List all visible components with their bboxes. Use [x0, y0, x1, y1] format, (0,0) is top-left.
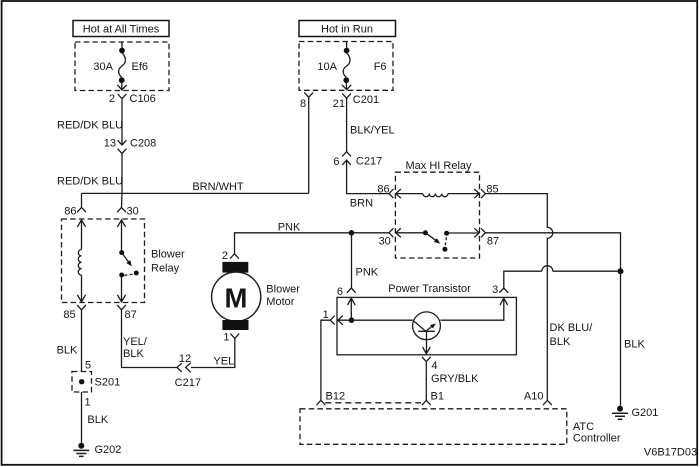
connector C217 pin 6 — [333, 152, 382, 168]
svg-text:Max HI Relay: Max HI Relay — [405, 160, 472, 172]
svg-text:S201: S201 — [95, 376, 121, 388]
svg-text:8: 8 — [300, 98, 306, 110]
pin 87 max hi relay — [481, 228, 499, 247]
svg-text:6: 6 — [333, 156, 339, 168]
svg-text:2: 2 — [109, 93, 115, 105]
svg-text:M: M — [225, 283, 248, 314]
wire YEL/BLK (C217 to relay 87) — [122, 310, 178, 368]
wire YEL (motor to C217) — [191, 338, 235, 367]
connector pin B12 — [317, 390, 346, 405]
wire from 87 right and down to junction — [485, 233, 620, 271]
wire RED/DK BLU (C106 to C208) — [121, 99, 123, 145]
splice S201 — [72, 360, 120, 409]
fuse F6 10A — [317, 48, 386, 84]
wire PNK (junction down to transistor pin 6) — [351, 233, 353, 288]
module Power Transistor box — [337, 283, 516, 355]
node Hot in Run — [299, 21, 396, 37]
svg-text:C208: C208 — [130, 137, 156, 149]
wire BLK (junction down to G201) — [620, 271, 622, 405]
wire RED/DK BLU (C208 down to junction) — [121, 154, 123, 194]
connector C201 pin 8 — [300, 93, 313, 111]
transistor pin 4 — [422, 357, 438, 372]
svg-text:Relay: Relay — [151, 262, 180, 274]
blower relay coil branch — [77, 220, 85, 302]
connector pin A10 — [524, 390, 552, 405]
pin 3 internal wire and arrow — [440, 298, 507, 320]
svg-text:BRN/WHT: BRN/WHT — [192, 181, 244, 193]
connector C201 pin 21 — [333, 93, 379, 110]
svg-text:2: 2 — [222, 250, 228, 262]
svg-text:YEL/: YEL/ — [123, 336, 148, 348]
svg-text:YEL: YEL — [213, 355, 234, 367]
wire BRN/WHT horizontal — [82, 192, 309, 194]
svg-text:BLK/YEL: BLK/YEL — [350, 124, 395, 136]
svg-text:F6: F6 — [374, 61, 387, 73]
pin 6 internal arrow and wire — [348, 298, 356, 320]
wire PNK horizontal (motor to relay 30) — [235, 233, 390, 254]
wire from pin 8 down to BRN/WHT — [308, 97, 310, 193]
svg-text:21: 21 — [333, 98, 345, 110]
svg-text:Power Transistor: Power Transistor — [388, 283, 471, 295]
node PNK junction — [349, 230, 355, 236]
svg-text:12: 12 — [179, 353, 191, 365]
svg-text:13: 13 — [104, 137, 116, 149]
svg-text:G201: G201 — [632, 407, 659, 419]
wire junction node — [618, 268, 624, 274]
blower relay switch branch — [117, 220, 138, 302]
svg-text:87: 87 — [487, 235, 499, 247]
wire pin1 to B12 — [321, 320, 330, 400]
transistor pin 6 — [337, 286, 356, 298]
transistor pin 3 — [492, 284, 508, 296]
connector C208 pin 13 — [104, 137, 157, 153]
svg-text:RED/DK BLU: RED/DK BLU — [57, 175, 123, 187]
svg-text:Controller: Controller — [573, 433, 621, 445]
pin 30 max hi relay — [379, 228, 394, 247]
node base junction — [349, 317, 355, 323]
connector pin B1 — [422, 390, 444, 405]
svg-text:PNK: PNK — [278, 221, 301, 233]
pin 85 blower relay — [63, 305, 86, 321]
svg-text:DK BLU/: DK BLU/ — [550, 322, 594, 334]
relay K blower relay dashed box — [62, 219, 145, 303]
wire + arrow from fuse to connector C201 — [342, 82, 351, 90]
svg-text:GRY/BLK: GRY/BLK — [431, 373, 479, 385]
svg-text:C201: C201 — [353, 94, 379, 106]
svg-text:5: 5 — [85, 360, 91, 372]
svg-text:RED/DK BLU: RED/DK BLU — [57, 120, 123, 132]
wire from 85 right and down (DK BLU/BLK feed) with hop — [485, 194, 552, 401]
svg-text:ATC: ATC — [573, 421, 594, 433]
svg-text:V6B17D03: V6B17D03 — [644, 447, 697, 459]
svg-text:1: 1 — [84, 397, 90, 409]
wire + arrow from fuse to connector C106 — [117, 82, 126, 90]
wire BLK (S201 to G202) — [81, 392, 83, 443]
svg-text:Hot at All Times: Hot at All Times — [83, 24, 160, 36]
wire fuse Ef6 top lead — [121, 42, 123, 48]
svg-text:30: 30 — [127, 205, 139, 217]
pin 86 max hi relay — [377, 184, 393, 199]
svg-text:C106: C106 — [130, 93, 156, 105]
max hi relay switch branch — [396, 228, 480, 252]
wire junction down to relay pin 30 — [121, 193, 124, 207]
svg-text:BLK: BLK — [57, 344, 78, 356]
svg-text:30A: 30A — [93, 61, 113, 73]
ground G202 — [73, 443, 121, 457]
wire fuse F6 top lead — [346, 42, 348, 49]
connector dashed link B12 to B1 — [325, 402, 421, 404]
svg-text:1: 1 — [323, 309, 329, 321]
svg-text:Ef6: Ef6 — [132, 61, 149, 73]
relay Max HI Relay dashed box — [395, 172, 479, 258]
svg-text:10A: 10A — [317, 61, 337, 73]
fuse block (underhood) dashed box — [75, 42, 169, 91]
svg-text:B1: B1 — [431, 390, 444, 402]
svg-text:C217: C217 — [356, 155, 382, 167]
wire down to relay pin 86 — [81, 193, 83, 207]
node Hot at All Times — [73, 21, 169, 37]
pin 1 internal arrow and base wire — [338, 316, 413, 325]
svg-text:4: 4 — [431, 360, 437, 372]
max hi relay coil branch — [396, 189, 480, 198]
svg-text:B12: B12 — [326, 390, 346, 402]
svg-text:C217: C217 — [175, 377, 201, 389]
svg-text:BRN: BRN — [350, 197, 373, 209]
svg-text:1: 1 — [223, 331, 229, 343]
svg-text:G202: G202 — [95, 444, 122, 456]
connector C106 pin 2 — [109, 93, 156, 105]
pin 86 blower relay — [64, 205, 86, 217]
svg-text:6: 6 — [337, 286, 343, 298]
svg-text:PNK: PNK — [356, 267, 379, 279]
transistor Q1 power transistor — [413, 312, 441, 354]
svg-text:BLK: BLK — [624, 338, 645, 350]
fuse block dashed box — [299, 42, 393, 91]
wire BRN (C217 to relay pin 86) — [347, 160, 389, 194]
svg-text:Motor: Motor — [266, 296, 294, 308]
svg-text:Hot in Run: Hot in Run — [321, 24, 373, 36]
svg-text:87: 87 — [125, 309, 137, 321]
svg-text:BLK: BLK — [87, 414, 108, 426]
module ATC Controller dashed box — [300, 409, 621, 445]
transistor pin 1 — [323, 309, 335, 325]
svg-text:Blower: Blower — [266, 283, 300, 295]
svg-text:A10: A10 — [524, 390, 544, 402]
wire from junction left to transistor pin 3 (hops over vertical) — [504, 271, 621, 288]
svg-text:BLK: BLK — [123, 348, 144, 360]
svg-text:30: 30 — [379, 235, 391, 247]
motor pin 1 — [223, 331, 239, 343]
svg-text:3: 3 — [492, 284, 498, 296]
pin 30 blower relay — [117, 205, 139, 217]
ground G201 — [612, 406, 658, 420]
fuse Ef6 30A — [93, 48, 148, 84]
pin 87 blower relay — [117, 305, 137, 321]
wire BLK (85 to S201) — [81, 310, 83, 372]
svg-text:85: 85 — [63, 309, 75, 321]
svg-text:Blower: Blower — [151, 248, 185, 260]
svg-text:BLK: BLK — [550, 336, 571, 348]
pin 85 max hi relay — [481, 184, 499, 199]
motor M blower motor — [212, 262, 301, 330]
wire BLK/YEL (21 to C217) — [346, 98, 348, 151]
motor pin 2 — [222, 250, 239, 262]
wire GRY/BLK (pin 4 to B1) — [425, 362, 427, 401]
svg-text:86: 86 — [377, 184, 389, 196]
svg-text:86: 86 — [64, 205, 76, 217]
connector C217 pin 12 — [175, 353, 201, 389]
